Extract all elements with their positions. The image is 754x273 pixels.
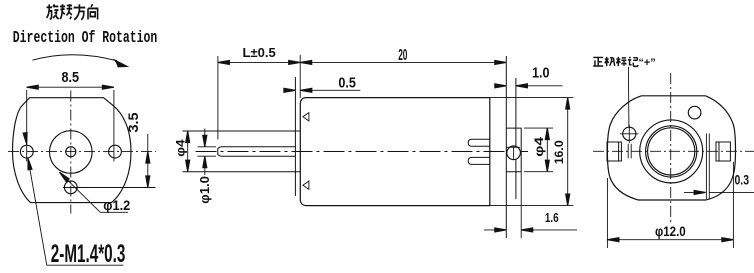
extension body bottom right xyxy=(490,205,574,207)
rear bearing circle xyxy=(507,146,521,160)
mounting hole right M1.4 xyxy=(109,145,122,158)
rear bearing outer circle xyxy=(640,120,703,183)
mounting hole left M1.4 xyxy=(20,145,33,158)
rear bearing tick xyxy=(513,146,515,160)
front horizontal centerline xyxy=(8,151,156,153)
extension rear phi4 bottom xyxy=(524,171,553,173)
dim phi4 left xyxy=(187,131,189,172)
svg-text:16.0: 16.0 xyxy=(552,140,566,164)
left terminal tab xyxy=(607,142,621,161)
rear bearing ring outer xyxy=(646,126,697,177)
shaft phi1.0 extension top xyxy=(198,146,217,148)
positive mark circle xyxy=(623,127,636,140)
front vertical centerline xyxy=(70,91,72,214)
dim 1.6 xyxy=(484,229,577,231)
terminal prong bottom xyxy=(468,157,490,164)
dimension 3.5 line xyxy=(147,134,149,188)
svg-text:φ4: φ4 xyxy=(532,137,546,157)
svg-text:Direction Of Rotation: Direction Of Rotation xyxy=(13,29,158,48)
svg-text:φ1.2: φ1.2 xyxy=(103,198,130,213)
dim 0.5 front xyxy=(287,89,361,91)
svg-text:L±0.5: L±0.5 xyxy=(243,45,276,60)
rear bearing ring inner xyxy=(648,128,695,175)
dimension line L and 20 xyxy=(218,61,506,63)
svg-text:8.5: 8.5 xyxy=(62,70,80,86)
extension line 3.5 bottom xyxy=(63,187,156,189)
svg-text:φ12.0: φ12.0 xyxy=(655,223,686,239)
shaft circle front xyxy=(66,147,76,157)
middle centerline xyxy=(196,151,529,153)
dim 16.0 line xyxy=(567,98,569,206)
dim phi12 line xyxy=(607,239,733,241)
rear outline xyxy=(607,96,735,200)
dim rear phi4 line xyxy=(546,128,548,172)
rear horizontal centerline xyxy=(593,150,754,152)
rear vertical centerline xyxy=(670,73,672,224)
dimension 8.5 line xyxy=(27,86,114,88)
shaft bottom line xyxy=(220,155,295,157)
extension line hole left xyxy=(26,90,28,162)
dim phi1.0 arrows xyxy=(204,129,206,176)
top dims: extension L left xyxy=(217,56,219,140)
svg-text:1.6: 1.6 xyxy=(545,211,559,225)
right terminal tab xyxy=(716,142,730,161)
terminal prong top xyxy=(468,139,490,146)
weld triangle top xyxy=(303,113,309,121)
shaft tip edge xyxy=(218,147,221,156)
extension body top right xyxy=(490,97,574,99)
leader phi1.2 xyxy=(60,172,129,212)
rear cap inner line xyxy=(515,78,517,199)
boss circle front xyxy=(50,131,93,174)
shaft top line xyxy=(220,146,295,148)
positive mark cross xyxy=(620,125,638,143)
leader positive mark xyxy=(627,67,630,127)
leader through-hole upper arrow xyxy=(25,134,27,145)
svg-text:2-M1.4*0.3: 2-M1.4*0.3 xyxy=(51,240,126,268)
extension rear phi4 top xyxy=(524,127,553,129)
svg-text:3.5: 3.5 xyxy=(126,112,141,133)
motor body side outline xyxy=(300,98,490,206)
extension line hole right xyxy=(113,90,115,162)
svg-text:0.5: 0.5 xyxy=(338,75,356,92)
phi12 extension left xyxy=(606,178,608,248)
front face outline xyxy=(13,98,132,203)
rear boss extension line down xyxy=(520,172,522,238)
dim 1.0 rear cap xyxy=(496,85,563,87)
svg-text:1.0: 1.0 xyxy=(532,64,550,81)
rear bearing boss box xyxy=(506,128,521,172)
rear bearing shelf line xyxy=(506,146,520,148)
rear vent hole xyxy=(688,106,701,119)
right brush bar xyxy=(706,134,709,199)
rear cap outer face line xyxy=(505,56,507,238)
2-M1.4*0.3 underline xyxy=(47,264,124,266)
left brush bar xyxy=(628,144,631,159)
bearing boss phi4 top line xyxy=(183,130,301,132)
rotation direction curved arrow xyxy=(32,55,117,61)
bearing boss phi4 bottom line xyxy=(183,171,301,173)
svg-text:φ4: φ4 xyxy=(174,139,188,157)
svg-text:0.3: 0.3 xyxy=(735,173,750,188)
hole phi1.2 bottom xyxy=(64,181,77,194)
chinese label: rotation direction (fake glyph strokes) xyxy=(47,4,98,20)
shaft phi1.0 extension bottom xyxy=(198,155,217,157)
front end plate line xyxy=(294,77,296,196)
svg-text:20: 20 xyxy=(398,47,407,64)
weld triangle bottom xyxy=(303,181,309,189)
dim 0.3 xyxy=(684,191,754,193)
chinese label: positive mark (fake glyph strokes) xyxy=(593,57,638,67)
leader 2-M1.4 xyxy=(30,167,47,265)
svg-text:φ1.0: φ1.0 xyxy=(198,176,212,204)
svg-text:“+”: “+” xyxy=(639,57,656,69)
extension body front top xyxy=(299,55,301,98)
phi12 extension right xyxy=(732,162,734,248)
